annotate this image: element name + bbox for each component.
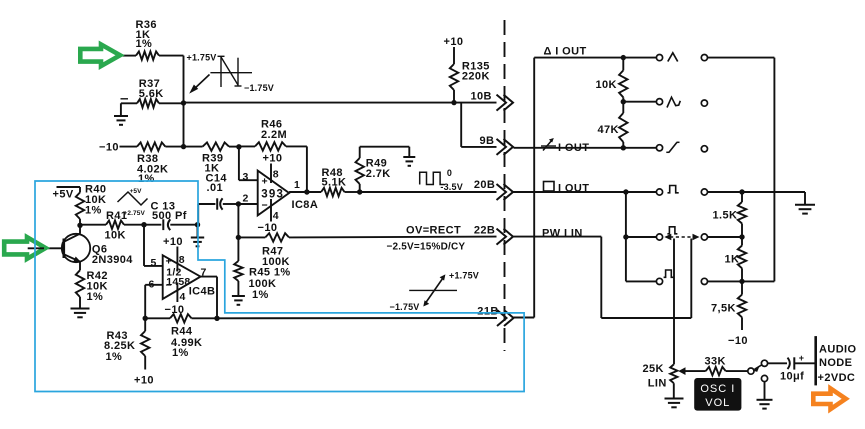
glyph triangle wave [668,53,678,62]
svg-text:IC8A: IC8A [292,199,319,211]
square wave symbol 20B [420,172,445,184]
svg-text:1%: 1% [136,38,153,50]
svg-text:220K: 220K [462,71,490,83]
svg-text:5.1K: 5.1K [322,177,347,189]
svg-text:R44: R44 [171,326,193,338]
wire 21B line [217,317,497,319]
terminal to ground pole [761,375,767,381]
terminal second pole row2 [701,100,707,106]
node square line junction [623,189,628,194]
svg-text:8: 8 [179,254,185,266]
svg-text:20B: 20B [474,179,495,191]
svg-text:10K: 10K [596,79,617,91]
resistor 33K [706,367,726,375]
wire 20B line [360,191,497,193]
wire right feedback vertical [773,58,775,282]
wire R36 input from green arrow [120,55,136,57]
svg-text:1%: 1% [106,351,123,363]
ground G1 for R37 [120,103,122,116]
svg-text:Δ I OUT: Δ I OUT [544,46,587,58]
wire switch column vertical [625,192,627,281]
svg-text:+2.75V: +2.75V [124,210,146,217]
svg-text:10K: 10K [105,230,126,242]
svg-text:21B: 21B [477,305,498,317]
node chain top [739,189,744,194]
glyph square pulse lower [664,270,674,277]
glyph ramp [666,151,669,153]
svg-text:25K: 25K [643,363,664,375]
resistor 47K divider [619,113,627,142]
svg-text:393: 393 [261,188,284,200]
svg-text:4: 4 [273,210,279,222]
svg-text:5.6K: 5.6K [139,88,164,100]
svg-text:−: − [262,200,268,212]
svg-text:1%: 1% [172,347,189,359]
wire long 10B line [184,102,497,104]
wire R36 to node [159,55,184,57]
glyph square pulse [668,186,679,193]
pin 8 stub +10 [176,247,178,272]
svg-text:−2.5V=15%D/CY: −2.5V=15%D/CY [387,242,466,253]
ground G3 [191,237,204,239]
label square I OUT with glyph [544,182,555,192]
resistor R41 10K [80,224,106,226]
wire to small triangle terminal [623,101,656,103]
green arrow annotation 2 [4,237,45,259]
terminal middle switch left [656,234,662,240]
wire 21B to bus [514,317,535,319]
ground G5 for R45 [232,295,245,297]
ground G6 chain top [804,192,806,205]
node chain low [739,279,744,284]
node R44 left junction [143,316,148,321]
svg-text:.01: .01 [207,182,224,194]
resistor R135 220K [453,47,455,64]
wire pin 6 input [145,284,163,286]
svg-text:−10: −10 [258,222,278,234]
terminal middle switch right [701,234,707,240]
svg-text:2: 2 [243,193,249,205]
triangle wave symbol [210,72,252,74]
svg-text:OSC I: OSC I [700,383,735,395]
svg-text:-3.5V: -3.5V [440,182,463,192]
svg-text:−10: −10 [99,142,119,154]
orange arrow annotation [813,389,846,410]
svg-text:NODE: NODE [819,357,852,369]
wire 9B branch [460,103,462,147]
resistor R39 1K [203,142,229,150]
resistor R36 1K 1% [136,51,159,59]
pin 8 stub and +10 supply [270,164,272,184]
op-amp U IC4B 1458 [163,255,201,299]
resistor R48 5.1K [321,188,344,196]
svg-text:47K: 47K [598,124,619,136]
ground G7 for pot [665,398,684,400]
cyan selection outline [35,181,524,392]
node chain mid [739,234,744,239]
node 10K/47K junction [621,99,626,104]
resistor R44 4.99K 1% [145,317,170,319]
svg-text:1: 1 [294,179,300,191]
svg-text:+10: +10 [444,36,464,48]
svg-text:5: 5 [151,257,157,269]
resistor 7.5K [741,281,743,294]
resistor R43 8.25K 1% [144,318,146,331]
svg-text:IC4B: IC4B [189,285,216,297]
resistor R46 2.2M feedback [239,145,255,147]
terminal lower switch left [656,278,662,284]
svg-text:4: 4 [180,291,186,303]
resistor R38 4.02K 1% [120,146,138,148]
terminal square out [656,189,662,195]
svg-text:1K: 1K [725,254,740,266]
resistor R37 5.6K [121,102,137,104]
node R41/C13 junction [141,222,146,227]
node R38/R39 junction [181,144,186,149]
terminal lower switch right [701,278,707,284]
node R37/R36 junction [181,100,186,105]
svg-text:1.5K: 1.5K [713,210,738,222]
svg-text:OV=RECT: OV=RECT [406,225,461,237]
node R39/R46/pin3 junction [236,144,241,149]
svg-text:−10: −10 [728,335,748,347]
terminal second pole row3 [701,146,707,152]
resistor 10K divider [622,58,624,71]
svg-text:7,5K: 7,5K [711,303,736,315]
wire PW line [514,236,602,238]
resistor R47 100K [265,233,289,241]
svg-text:2.2M: 2.2M [261,129,287,141]
wire 22B PW line [238,236,265,238]
terminal small triangle out [656,99,662,105]
svg-text:1%: 1% [138,173,155,185]
wire ramp out line 9B [514,147,657,149]
ground G2 for R49 [403,156,415,158]
svg-text:3: 3 [243,171,249,183]
resistor 1K [741,237,743,246]
ground G4 for R42 [71,308,90,310]
wire triangle out line [534,57,656,59]
svg-text:AUDIO: AUDIO [819,344,856,356]
svg-text:10B: 10B [471,91,492,103]
op-amp U IC8A 393 [258,171,289,216]
pin 4 stub and -10 supply [270,199,272,222]
svg-text:+5V: +5V [53,189,74,201]
resistor R49 2.7K [356,158,364,184]
svg-text:2.7K: 2.7K [366,168,391,180]
svg-text:+5V: +5V [130,188,143,195]
svg-text:2N3904: 2N3904 [92,254,133,266]
svg-text:9B: 9B [480,135,495,147]
svg-text:8: 8 [273,169,279,181]
OSC I VOL box [694,378,741,411]
mini +5V triangle wave symbol [118,192,148,205]
transistor Q6 2N3904 [62,234,90,262]
svg-text:VOL: VOL [705,397,730,409]
svg-text:+1.75V: +1.75V [449,270,479,280]
svg-text:+: + [799,353,804,363]
svg-text:+: + [262,176,268,188]
wire right-side bus vertical [533,58,535,318]
label ramp I OUT with glyph [541,145,556,147]
wire lower switch row [626,280,657,282]
capacitor 10uf [768,362,787,364]
ramp wave symbol 21B [409,289,457,291]
ground G8 [757,399,773,401]
resistor 1.5K [741,192,743,202]
resistor R40 10K 1% [76,192,84,219]
svg-text:33K: 33K [705,355,726,367]
green arrow annotation 1 [80,44,120,66]
terminal triangle out [656,55,662,61]
svg-text:0: 0 [447,168,452,178]
svg-text:1458: 1458 [166,276,190,288]
svg-text:10μf: 10μf [780,371,804,383]
svg-text:R45 1%: R45 1% [249,267,291,279]
svg-text:+10: +10 [263,152,283,164]
node pin2 junction [236,201,241,206]
potentiometer 25K LIN [670,364,677,383]
node R48/R49 junction [357,189,362,194]
node Q6 collector junction [77,223,82,228]
audio node bar [814,336,817,385]
glyph small triangle wave [667,97,680,107]
wire square out line [514,191,657,193]
glyph square pulse middle [667,227,677,234]
terminal top right pole [701,55,707,61]
svg-text:LIN: LIN [648,377,667,389]
svg-text:1%: 1% [252,289,269,301]
svg-text:+10: +10 [134,374,154,386]
node R47 left junction [236,235,241,240]
svg-text:+1.75V: +1.75V [187,53,217,63]
svg-text:1%: 1% [87,291,104,303]
svg-text:+10: +10 [163,236,183,248]
svg-text:−1.75V: −1.75V [244,83,274,93]
terminal square out pole [701,189,707,195]
wire Q6 base through arrow [28,247,44,249]
wire middle switch row [626,236,657,238]
svg-text:−1.75V: −1.75V [390,302,420,312]
switch wiper arrows with gang link [664,234,671,240]
switch SPST to audio node [748,368,754,374]
svg-text:22B: 22B [474,225,495,237]
dashed board boundary [504,20,506,351]
svg-text:+2VDC: +2VDC [818,372,856,384]
resistor R42 10K 1% [76,270,84,297]
terminal ramp out [656,145,662,151]
svg-text:1%: 1% [85,204,102,216]
wire IC4B output [201,276,218,278]
annotation arrow to node [193,75,210,91]
node R44 right junction [214,316,219,321]
node C13 right junction [195,222,200,227]
resistor R45 100K 1% [237,237,239,261]
wire op-amp output [289,191,321,193]
pin 4 stub -10 [176,283,178,303]
